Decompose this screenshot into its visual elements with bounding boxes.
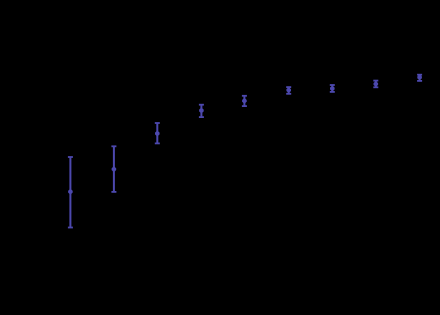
top cap 2	[111, 145, 116, 147]
wire: vertical error line 7	[331, 85, 333, 92]
diamond marker 1	[68, 189, 73, 194]
diamond marker 5	[242, 99, 247, 104]
diamond marker 6	[286, 88, 291, 93]
bottom cap 9	[417, 80, 422, 82]
diamond marker 8	[374, 82, 379, 87]
error bar 5	[242, 96, 247, 106]
diamond marker 4	[199, 108, 204, 113]
diamond marker 2	[112, 167, 117, 172]
diamond marker 9	[417, 75, 422, 80]
top cap 6	[286, 86, 291, 88]
wire: vertical error line 6	[288, 87, 290, 94]
top cap 1	[68, 156, 73, 158]
wire: vertical error line 4	[200, 105, 202, 117]
top cap 8	[373, 80, 378, 82]
error bar 4	[199, 105, 204, 117]
error bar 1	[68, 157, 73, 228]
bottom cap 5	[242, 105, 247, 107]
wire: vertical error line 2	[113, 146, 115, 192]
error bar 3	[155, 123, 160, 143]
wire: vertical error line 3	[156, 123, 158, 143]
wire: vertical error line 9	[419, 75, 421, 81]
error bar 9	[417, 75, 422, 81]
wire: vertical error line 8	[375, 81, 377, 88]
bottom cap 8	[373, 86, 378, 88]
error bar 2	[111, 146, 116, 192]
wire: vertical error line 5	[243, 96, 245, 106]
bottom cap 7	[330, 91, 335, 93]
top cap 4	[199, 104, 204, 106]
bottom cap 1	[68, 227, 73, 229]
top cap 3	[155, 122, 160, 124]
top cap 5	[242, 95, 247, 97]
error bar 6	[286, 87, 291, 94]
top cap 7	[330, 84, 335, 86]
diamond marker 3	[155, 131, 160, 136]
error bar 7	[330, 85, 335, 92]
wire: vertical error line 1	[69, 157, 71, 228]
bottom cap 2	[111, 191, 116, 193]
error bar 8	[373, 81, 378, 88]
top cap 9	[417, 74, 422, 76]
bottom cap 4	[199, 116, 204, 118]
bottom cap 3	[155, 142, 160, 144]
bottom cap 6	[286, 93, 291, 95]
diamond marker 7	[330, 86, 335, 91]
